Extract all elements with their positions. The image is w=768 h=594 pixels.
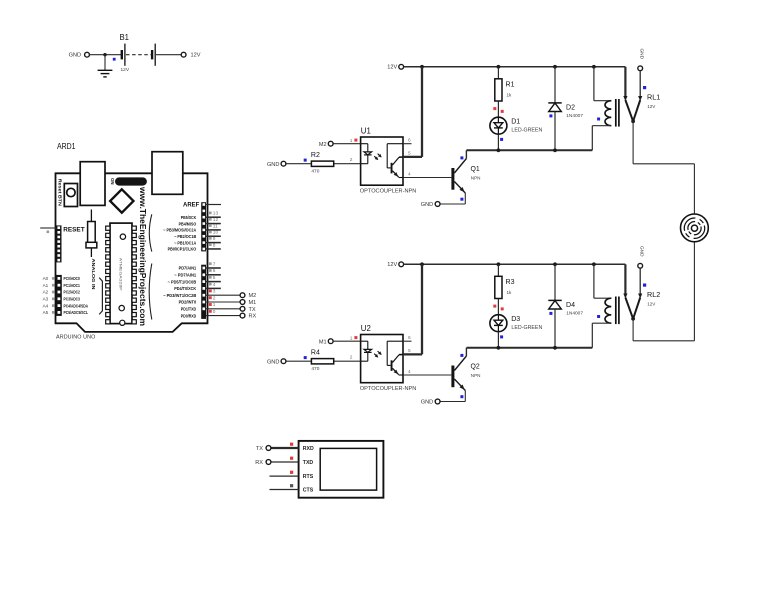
svg-text:1N4007: 1N4007 bbox=[566, 310, 583, 316]
svg-text:1: 1 bbox=[350, 138, 353, 144]
svg-text:5: 5 bbox=[408, 151, 411, 157]
svg-text:PD0/RXD: PD0/RXD bbox=[181, 313, 197, 318]
svg-text:2: 2 bbox=[213, 295, 216, 301]
svg-text:RX: RX bbox=[249, 314, 257, 320]
svg-text:Q2: Q2 bbox=[471, 362, 480, 371]
svg-text:6: 6 bbox=[408, 138, 411, 144]
svg-text:~ PB1/OC1A: ~ PB1/OC1A bbox=[174, 240, 197, 245]
svg-text:12V: 12V bbox=[191, 53, 201, 59]
svg-text:LED-GREEN: LED-GREEN bbox=[511, 325, 542, 331]
svg-text:A4: A4 bbox=[43, 303, 49, 308]
svg-text:PD7/AIN1: PD7/AIN1 bbox=[179, 266, 197, 271]
svg-text:RTS: RTS bbox=[303, 474, 314, 480]
svg-text:R4: R4 bbox=[311, 348, 320, 357]
svg-text:D4: D4 bbox=[566, 300, 575, 309]
svg-text:12V: 12V bbox=[647, 301, 656, 306]
svg-text:D1: D1 bbox=[511, 117, 520, 126]
svg-text:4: 4 bbox=[408, 369, 411, 375]
svg-text:GND: GND bbox=[421, 400, 433, 406]
svg-text:A5: A5 bbox=[43, 310, 49, 315]
svg-text:1N4007: 1N4007 bbox=[566, 113, 583, 119]
svg-text:M2: M2 bbox=[319, 142, 327, 148]
svg-text:10: 10 bbox=[213, 230, 219, 236]
svg-text:AREF: AREF bbox=[183, 203, 200, 209]
svg-text:0: 0 bbox=[213, 309, 216, 315]
svg-text:RL2: RL2 bbox=[647, 290, 660, 299]
svg-text:6: 6 bbox=[213, 268, 216, 274]
svg-text:PC5/ADC5/SCL: PC5/ADC5/SCL bbox=[64, 310, 89, 315]
svg-text:470: 470 bbox=[311, 169, 319, 175]
svg-text:U1: U1 bbox=[361, 127, 371, 136]
svg-text:NPN: NPN bbox=[471, 373, 481, 378]
svg-text:A2: A2 bbox=[43, 290, 49, 295]
svg-text:D2: D2 bbox=[566, 103, 575, 112]
svg-text:ATMEGA328P: ATMEGA328P bbox=[119, 258, 123, 292]
svg-text:GND: GND bbox=[267, 162, 279, 168]
svg-text:12V: 12V bbox=[647, 104, 656, 109]
svg-text:RESET: RESET bbox=[63, 226, 84, 233]
svg-text:PD4/T0/XCK: PD4/T0/XCK bbox=[174, 286, 197, 291]
svg-text:470: 470 bbox=[311, 366, 319, 372]
svg-text:OPTOCOUPLER-NPN: OPTOCOUPLER-NPN bbox=[360, 386, 416, 392]
svg-text:B1: B1 bbox=[120, 33, 130, 42]
svg-text:ARDUINO UNO: ARDUINO UNO bbox=[56, 335, 95, 341]
svg-text:TX: TX bbox=[249, 307, 256, 313]
svg-text:U2: U2 bbox=[361, 324, 371, 333]
svg-text:1: 1 bbox=[350, 335, 353, 341]
svg-text:R3: R3 bbox=[506, 277, 515, 286]
svg-text:6: 6 bbox=[408, 335, 411, 341]
svg-text:RXD: RXD bbox=[303, 446, 314, 452]
svg-text:Q1: Q1 bbox=[471, 164, 480, 173]
svg-text:M1: M1 bbox=[319, 339, 327, 345]
svg-text:1k: 1k bbox=[507, 93, 513, 98]
svg-text:LED-GREEN: LED-GREEN bbox=[511, 128, 542, 134]
svg-text:PC4/ADC4/SDA: PC4/ADC4/SDA bbox=[64, 303, 89, 308]
svg-text:PC0/ADC0: PC0/ADC0 bbox=[64, 276, 81, 281]
svg-text:8: 8 bbox=[213, 242, 216, 248]
svg-text:~ PD3/INT1/OC2B: ~ PD3/INT1/OC2B bbox=[163, 293, 197, 298]
svg-text:12V: 12V bbox=[121, 67, 130, 73]
svg-text:A0: A0 bbox=[43, 276, 49, 281]
svg-text:www.TheEngineeringProjects.com: www.TheEngineeringProjects.com bbox=[138, 186, 147, 326]
svg-text:Reset BTN: Reset BTN bbox=[58, 179, 63, 206]
svg-text:M1: M1 bbox=[249, 300, 257, 306]
svg-text:GND: GND bbox=[421, 202, 433, 208]
svg-text:7: 7 bbox=[213, 261, 216, 267]
svg-text:9: 9 bbox=[213, 236, 216, 242]
svg-text:~ PB2/OC1B: ~ PB2/OC1B bbox=[174, 234, 197, 239]
svg-text:12: 12 bbox=[213, 217, 219, 223]
svg-text:~ PD5/T1/OC0B: ~ PD5/T1/OC0B bbox=[168, 279, 197, 284]
svg-text:CTS: CTS bbox=[303, 488, 314, 494]
svg-text:2: 2 bbox=[350, 355, 353, 361]
svg-text:M2: M2 bbox=[249, 293, 257, 299]
svg-text:GND: GND bbox=[639, 246, 644, 257]
svg-text:TXD: TXD bbox=[303, 460, 314, 466]
svg-text:GND: GND bbox=[69, 53, 81, 59]
svg-text:GND: GND bbox=[267, 359, 279, 365]
svg-text:D3: D3 bbox=[511, 314, 520, 323]
svg-text:RL1: RL1 bbox=[647, 93, 660, 102]
svg-text:~ PB3/MOSI/OC2A: ~ PB3/MOSI/OC2A bbox=[163, 228, 197, 233]
svg-text:PD1/TXD: PD1/TXD bbox=[181, 307, 197, 312]
svg-text:5: 5 bbox=[408, 348, 411, 354]
svg-text:R2: R2 bbox=[311, 150, 320, 159]
svg-text:OPTOCOUPLER-NPN: OPTOCOUPLER-NPN bbox=[360, 189, 416, 195]
svg-text:PC1/ADC1: PC1/ADC1 bbox=[64, 283, 81, 288]
svg-text:1k: 1k bbox=[507, 290, 513, 295]
svg-text:ON: ON bbox=[110, 178, 115, 185]
svg-text:11: 11 bbox=[213, 223, 218, 229]
svg-text:~ PD7/AIN1: ~ PD7/AIN1 bbox=[174, 273, 196, 278]
svg-text:GND: GND bbox=[639, 49, 644, 60]
svg-text:4: 4 bbox=[213, 282, 216, 288]
svg-text:R1: R1 bbox=[506, 80, 515, 89]
svg-text:12V: 12V bbox=[387, 262, 397, 268]
svg-text:3: 3 bbox=[213, 289, 216, 295]
svg-text:5: 5 bbox=[213, 275, 216, 281]
svg-text:12V: 12V bbox=[387, 65, 397, 71]
svg-text:TX: TX bbox=[256, 446, 263, 452]
svg-text:ARD1: ARD1 bbox=[57, 142, 76, 151]
svg-text:PB0/ICP1/CLKO: PB0/ICP1/CLKO bbox=[168, 247, 197, 252]
svg-text:PD2/INT0: PD2/INT0 bbox=[179, 300, 197, 305]
svg-text:A3: A3 bbox=[43, 297, 49, 302]
svg-text:4: 4 bbox=[408, 172, 411, 178]
svg-text:13: 13 bbox=[213, 211, 219, 217]
svg-text:1: 1 bbox=[213, 302, 216, 308]
svg-text:PC3/ADC3: PC3/ADC3 bbox=[64, 297, 81, 302]
svg-text:PC2/ADC2: PC2/ADC2 bbox=[64, 290, 81, 295]
svg-text:NPN: NPN bbox=[471, 175, 481, 180]
svg-text:RX: RX bbox=[255, 460, 263, 466]
svg-text:PB5/SCK: PB5/SCK bbox=[181, 215, 197, 220]
svg-text:A1: A1 bbox=[43, 283, 49, 288]
svg-text:2: 2 bbox=[350, 157, 353, 163]
svg-text:ANALOG IN: ANALOG IN bbox=[90, 259, 96, 291]
svg-text:PB4/MISO: PB4/MISO bbox=[179, 221, 197, 226]
